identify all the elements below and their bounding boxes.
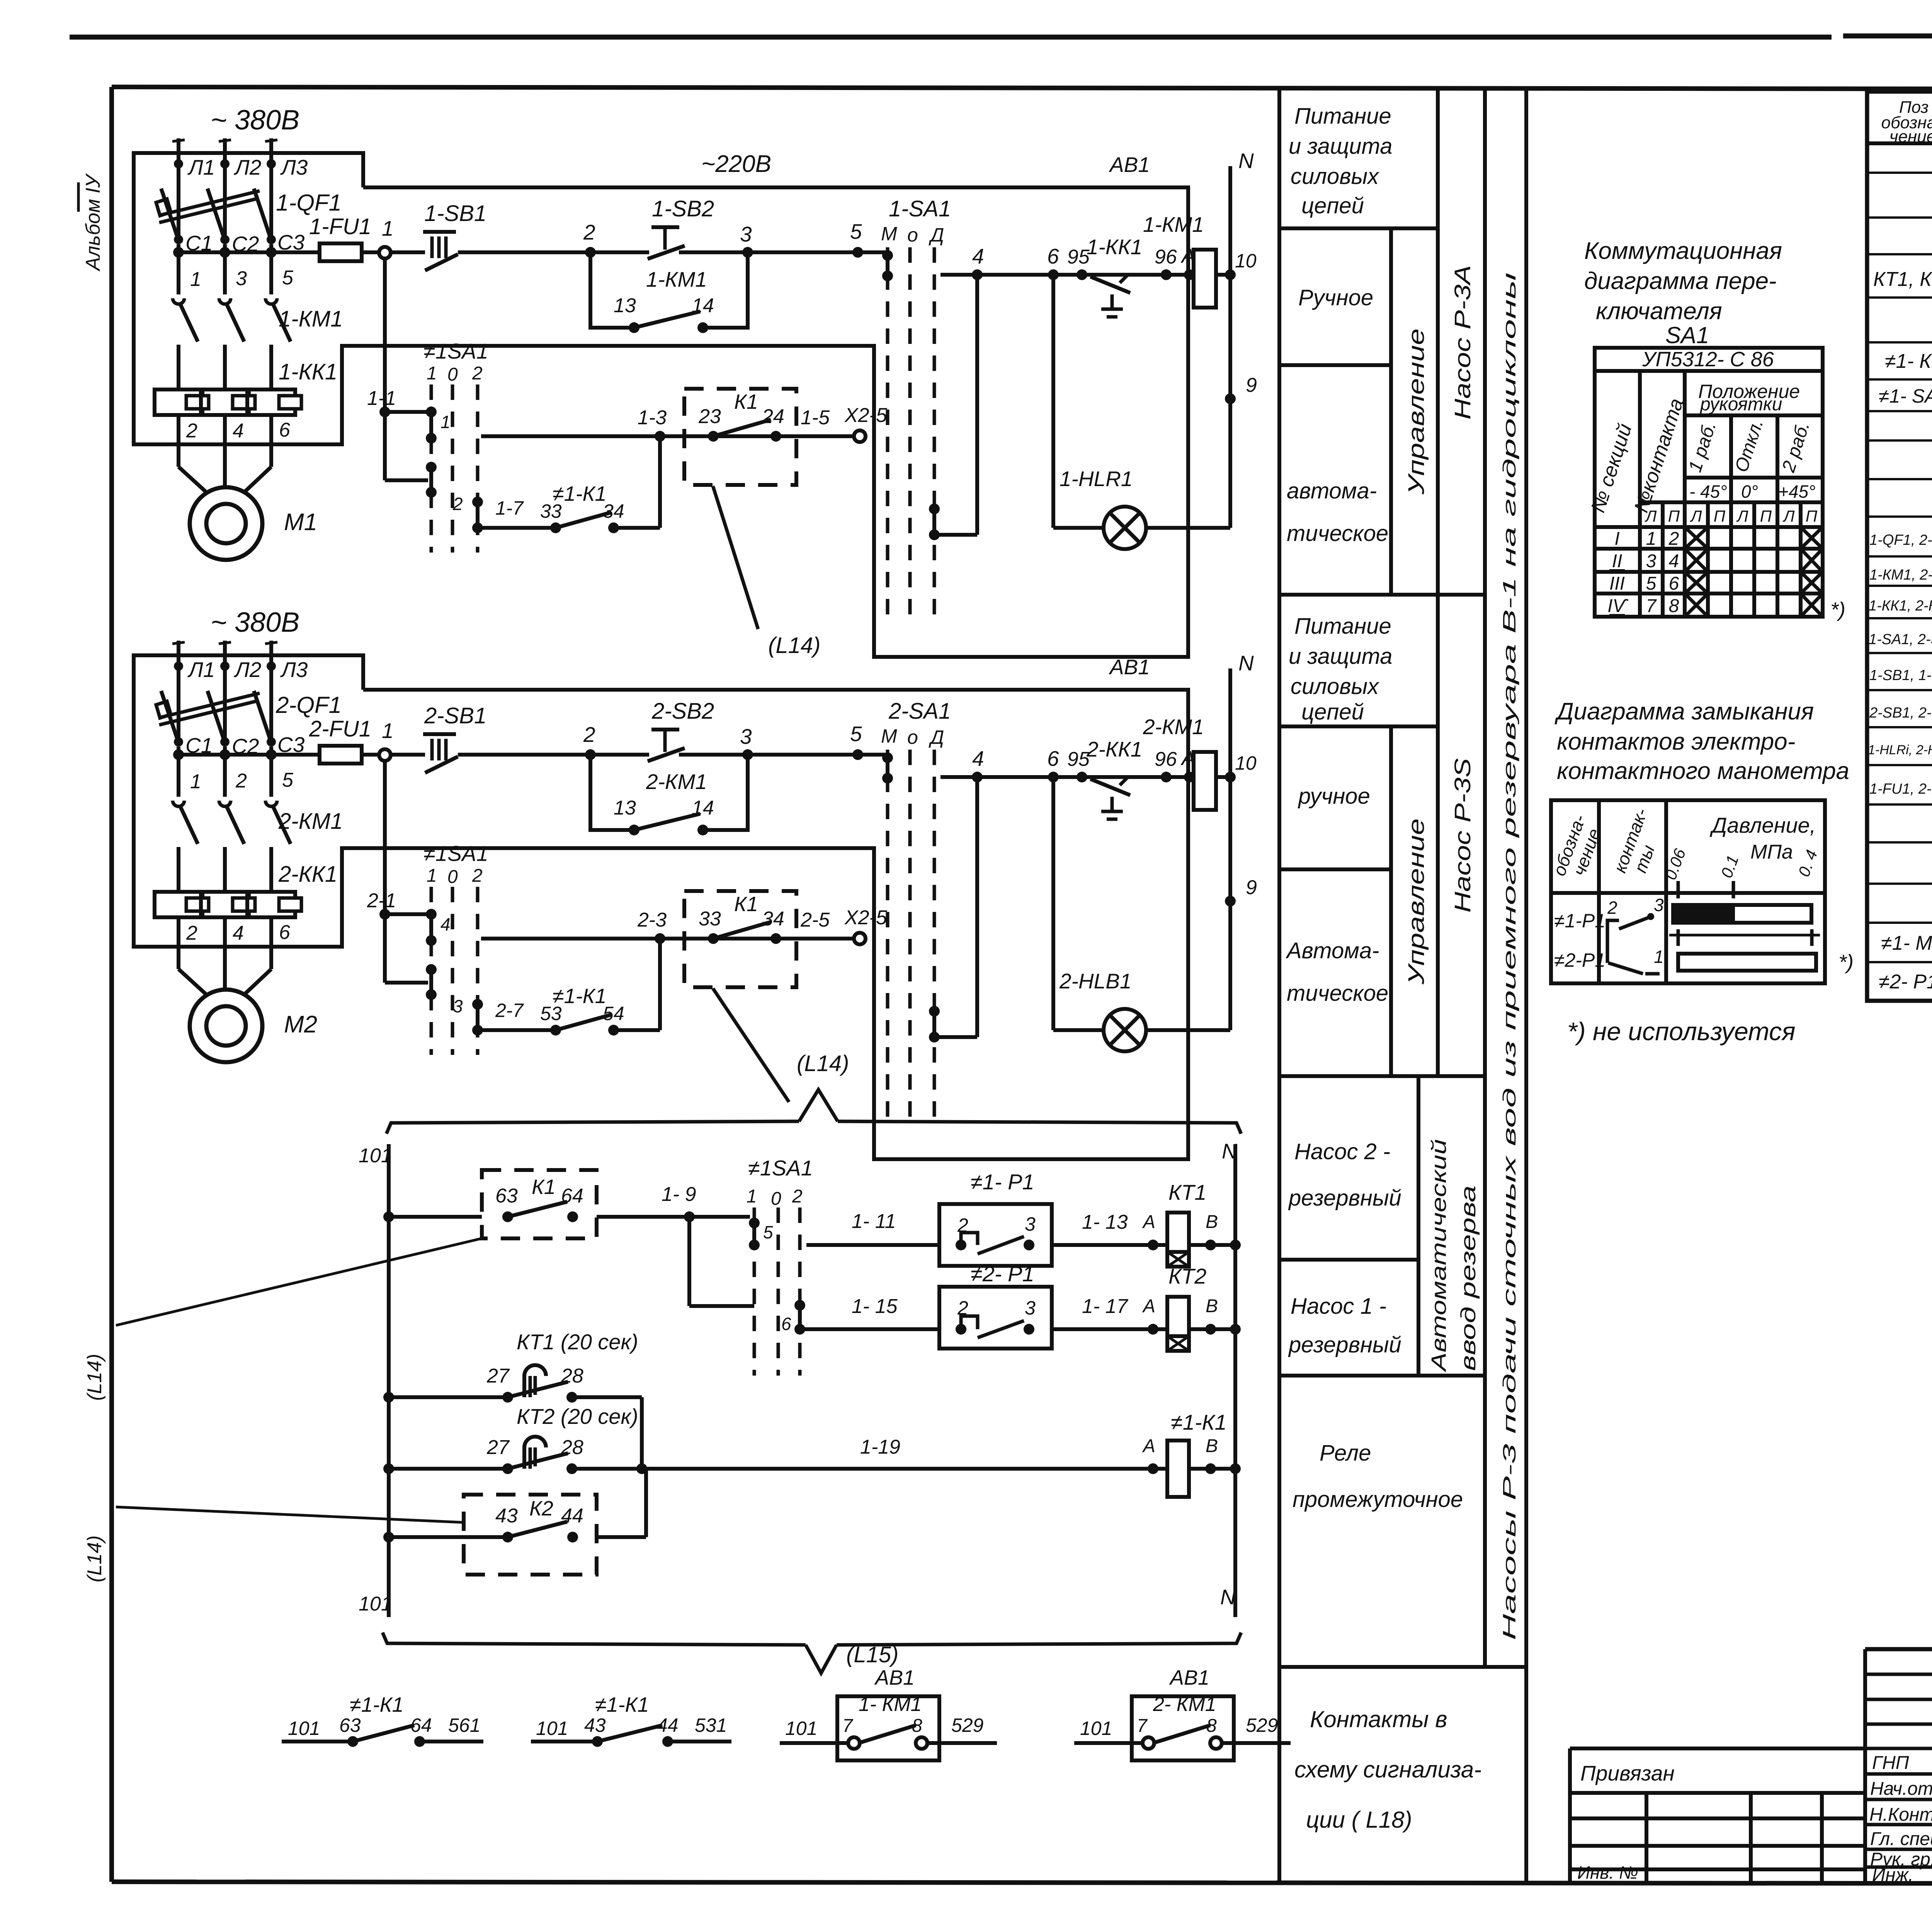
- svg-text:1-SA1: 1-SA1: [889, 196, 951, 221]
- svg-text:8: 8: [912, 1716, 922, 1736]
- time relay coil KT1: [1167, 1180, 1218, 1267]
- svg-text:1-КМ1: 1-КМ1: [279, 306, 343, 332]
- svg-text:33: 33: [540, 500, 562, 522]
- svg-text:1: 1: [1654, 947, 1664, 967]
- SA1 table section rows: [1607, 529, 1679, 616]
- contactor main contacts 1-KM1: [173, 244, 343, 444]
- svg-text:1- 15: 1- 15: [852, 1295, 898, 1318]
- svg-text:6: 6: [279, 921, 290, 944]
- label pump2 reserve: [1288, 1139, 1401, 1211]
- signal contact 2-KM1 7-8 in AB1: [1074, 1666, 1291, 1760]
- KK1 heaters circuit 1: [155, 359, 337, 415]
- svg-text:~ 380В: ~ 380В: [211, 105, 299, 136]
- svg-text:рукоятки: рукоятки: [1699, 394, 1782, 415]
- svg-text:1-КМ1: 1-КМ1: [646, 267, 707, 291]
- indicator lamp HLB1: [1053, 777, 1230, 1051]
- start button 2-SB2: [648, 699, 714, 761]
- svg-text:64: 64: [410, 1714, 432, 1736]
- svg-text:2-КМ1: 2-КМ1: [1143, 715, 1204, 739]
- contactor coil 2-KM1: [1143, 715, 1216, 810]
- phase terminal labels circuit 1: [187, 155, 308, 179]
- svg-text:Инж.: Инж.: [1872, 1865, 1913, 1885]
- svg-text:Автоматический: Автоматический: [1427, 1139, 1451, 1372]
- svg-text:1- 17: 1- 17: [1082, 1295, 1129, 1318]
- breaker label 2-QF1: [276, 692, 342, 718]
- svg-text:1: 1: [427, 363, 437, 384]
- svg-text:Гл. спец.: Гл. спец.: [1870, 1829, 1932, 1849]
- svg-text:5: 5: [282, 769, 294, 791]
- svg-text:3: 3: [453, 996, 463, 1016]
- svg-text:101: 101: [536, 1718, 568, 1739]
- svg-text:Л3: Л3: [280, 155, 308, 179]
- svg-text:ручное: ручное: [1298, 784, 1370, 809]
- svg-text:А: А: [1142, 1212, 1155, 1232]
- pressure contact box 2-P1: [939, 1262, 1052, 1349]
- svg-text:МПа: МПа: [1750, 841, 1793, 863]
- svg-text:1- 11: 1- 11: [852, 1210, 896, 1233]
- svg-text:1-SB1, 1-SB2: 1-SB1, 1-SB2: [1869, 667, 1932, 684]
- svg-text:АВ1: АВ1: [1109, 655, 1150, 679]
- svg-text:КТ2: КТ2: [1168, 1264, 1206, 1288]
- svg-text:≠1SA1: ≠1SA1: [423, 841, 488, 866]
- svg-text:Л3: Л3: [280, 658, 308, 682]
- svg-text:промежуточное: промежуточное: [1293, 1487, 1463, 1512]
- svg-text:ключателя: ключателя: [1596, 298, 1722, 325]
- breaker label 1-QF1: [276, 190, 342, 216]
- control line node4 to KM coil circuit 1: [940, 244, 1195, 280]
- svg-text:2-КМ1: 2-КМ1: [278, 809, 343, 834]
- time contact KT2 27-28: [383, 1404, 646, 1474]
- row SA1 switch: [1879, 381, 1932, 412]
- row QF breakers: [1869, 523, 1932, 549]
- svg-text:≠1-К1: ≠1-К1: [595, 1693, 649, 1716]
- svg-text:Д: Д: [929, 726, 944, 748]
- component table row lines: [1867, 173, 1932, 962]
- control line node4 to KM coil circuit 2: [940, 747, 1195, 782]
- label pump1 reserve: [1288, 1294, 1401, 1357]
- svg-text:К1: К1: [532, 1175, 556, 1199]
- svg-text:2-SA1: 2-SA1: [888, 699, 951, 724]
- svg-text:и защита: и защита: [1289, 134, 1392, 159]
- svg-text:3: 3: [1646, 551, 1656, 571]
- svg-text:1-HLRi, 2-HLR1: 1-HLRi, 2-HLR1: [1868, 743, 1932, 757]
- svg-text:Л2: Л2: [234, 155, 261, 179]
- selector switch 2-SA1 contacts M O D: [881, 699, 951, 1124]
- svg-text:(L14): (L14): [797, 1051, 849, 1076]
- svg-text:1: 1: [440, 412, 451, 432]
- label pump P-3A rotated: [1450, 265, 1475, 420]
- svg-text:4: 4: [440, 914, 451, 934]
- control tap bus circuit 2: [173, 749, 320, 760]
- svg-text:3: 3: [740, 724, 752, 748]
- svg-text:ГНП: ГНП: [1872, 1753, 1909, 1773]
- svg-text:Автома-: Автома-: [1286, 938, 1379, 963]
- svg-text:2-SB2: 2-SB2: [651, 699, 714, 724]
- svg-text:2-КМ1: 2-КМ1: [646, 770, 707, 794]
- svg-text:2-SB1: 2-SB1: [424, 703, 486, 728]
- top bracket line L14 section: [386, 1090, 1241, 1134]
- wire SB1 to node 2 circuit 1: [458, 220, 649, 258]
- svg-text:3: 3: [740, 222, 752, 246]
- svg-text:529: 529: [1246, 1714, 1278, 1736]
- cabinet AB1 outline circuit 1: [134, 153, 1188, 657]
- L14 bracket label: [797, 1051, 849, 1076]
- wire coil to N circuit 2: [1216, 752, 1257, 782]
- label manual 1: [1298, 285, 1373, 310]
- start button 1-SB2: [648, 196, 714, 259]
- AB1 label circuit 1: [1109, 153, 1150, 177]
- svg-text:Контакты в: Контакты в: [1310, 1706, 1447, 1732]
- svg-text:X2-5: X2-5: [844, 906, 888, 929]
- L15 bracket label: [846, 1642, 898, 1667]
- svg-text:силовых: силовых: [1291, 674, 1379, 699]
- svg-text:схему сигнализа-: схему сигнализа-: [1294, 1757, 1481, 1782]
- svg-text:5: 5: [763, 1222, 773, 1242]
- svg-text:101: 101: [1080, 1718, 1112, 1739]
- svg-text:8: 8: [1669, 596, 1679, 616]
- SA1 diagram table grid: [1595, 348, 1823, 617]
- svg-text:- 45°: - 45°: [1689, 481, 1727, 502]
- svg-text:7: 7: [1646, 596, 1657, 616]
- svg-text:АВ1: АВ1: [874, 1666, 915, 1689]
- svg-text:2: 2: [472, 866, 483, 886]
- wire node1 down to selector 2: [367, 760, 428, 983]
- svg-text:2: 2: [583, 220, 595, 244]
- svg-text:6: 6: [1047, 244, 1059, 268]
- svg-text:ции ( L18): ции ( L18): [1306, 1807, 1412, 1833]
- svg-text:1-SB1: 1-SB1: [424, 201, 486, 226]
- auto line with relay contact K1 33-34 circuit 2: [481, 909, 854, 944]
- supply label ~380V circuit 2: [211, 607, 299, 638]
- svg-text:1: 1: [190, 268, 201, 291]
- SA1 diagram title: [1584, 238, 1782, 348]
- svg-text:Нач.отд.: Нач.отд.: [1870, 1779, 1932, 1799]
- svg-text:2-FU1: 2-FU1: [309, 716, 371, 742]
- svg-text:28: 28: [561, 1365, 583, 1387]
- manometer table headers: [1549, 806, 1821, 882]
- time contact KT1 27-28: [383, 1330, 642, 1403]
- svg-text:27: 27: [486, 1436, 510, 1459]
- svg-text:≠1- М: ≠1- М: [1881, 932, 1932, 954]
- L14 reference pointer circuit 2: [713, 988, 789, 1102]
- svg-text:ІІ: ІІ: [1612, 551, 1622, 571]
- svg-text:Ручное: Ручное: [1298, 285, 1373, 310]
- svg-text:2: 2: [186, 922, 197, 944]
- row KT1 KT2: [1873, 265, 1932, 296]
- auto line with relay contact K1 23-24 circuit 1: [481, 406, 854, 442]
- neutral N relay section: [1220, 1139, 1237, 1617]
- row FU fuses: [1869, 772, 1932, 798]
- SA1 table L P row: [1645, 507, 1818, 525]
- svg-text:В: В: [1206, 1212, 1218, 1232]
- svg-text:1-FU1, 2-FU1: 1-FU1, 2-FU1: [1869, 781, 1932, 797]
- svg-text:АВ1: АВ1: [1109, 153, 1150, 177]
- seal-in contact 13-14 2-KM1: [590, 755, 748, 835]
- svg-text:П: П: [1760, 507, 1772, 525]
- row manometer: [1881, 930, 1932, 955]
- svg-text:27: 27: [486, 1365, 510, 1387]
- attachment labels: [1577, 1761, 1675, 1883]
- svg-text:1-КК1, 2-КК1: 1-КК1, 2-КК1: [1869, 598, 1932, 614]
- control voltage label ~220V: [701, 151, 771, 177]
- svg-text:Насос Р-3S: Насос Р-3S: [1450, 758, 1475, 913]
- function column grid: [1279, 90, 1526, 1881]
- selector 2 lower block 1SA1: [423, 841, 488, 1055]
- svg-text:М: М: [881, 725, 897, 747]
- svg-text:53: 53: [540, 1003, 562, 1024]
- svg-text:3: 3: [1654, 895, 1664, 915]
- label power and protection 1: [1289, 104, 1392, 218]
- svg-text:4: 4: [233, 420, 244, 442]
- svg-text:диаграмма пере-: диаграмма пере-: [1584, 268, 1777, 294]
- svg-text:64: 64: [561, 1185, 583, 1207]
- junction KT1-KT2 rows: [636, 1397, 647, 1474]
- svg-text:М2: М2: [284, 1011, 317, 1038]
- svg-text:529: 529: [951, 1714, 983, 1736]
- svg-text:Л1: Л1: [187, 155, 215, 179]
- svg-text:7: 7: [842, 1716, 854, 1736]
- svg-text:1- 13: 1- 13: [1082, 1211, 1128, 1233]
- svg-text:тическое: тическое: [1287, 521, 1388, 546]
- svg-text:34: 34: [603, 500, 624, 522]
- manometer contact symbol: [1607, 895, 1664, 974]
- svg-text:2: 2: [583, 723, 595, 747]
- svg-text:2-HLB1: 2-HLB1: [1059, 969, 1131, 993]
- wire KT1 to N: [1189, 1240, 1241, 1250]
- thermal contact 1-KK1: [1087, 235, 1142, 317]
- SA1 table footnote mark: [1830, 598, 1845, 621]
- time relay coil KT2: [1167, 1264, 1218, 1351]
- label automatic 2: [1286, 938, 1388, 1006]
- svg-text:ІѴ: ІѴ: [1607, 596, 1629, 616]
- svg-text:N: N: [1222, 1139, 1237, 1163]
- L14 pointer slants: [116, 1238, 482, 1522]
- svg-text:Л: Л: [1782, 507, 1795, 525]
- svg-text:и защита: и защита: [1289, 644, 1392, 669]
- svg-text:10: 10: [1235, 752, 1257, 774]
- svg-text:1- 9: 1- 9: [662, 1183, 696, 1206]
- svg-text:резервный: резервный: [1288, 1185, 1401, 1211]
- svg-text:1- КМ1: 1- КМ1: [859, 1693, 922, 1716]
- svg-text:о: о: [907, 726, 918, 748]
- svg-text:І: І: [1614, 529, 1619, 549]
- svg-text:2-КК1: 2-КК1: [278, 862, 337, 887]
- svg-text:1-QF1: 1-QF1: [276, 190, 342, 216]
- svg-text:≠1SA1: ≠1SA1: [423, 339, 488, 363]
- wire SB1 to node 2 circuit 2: [458, 723, 649, 760]
- relay K1 dashed box circuit 1: [684, 389, 830, 485]
- svg-text:4: 4: [233, 922, 244, 944]
- svg-text:*): *): [1830, 598, 1845, 621]
- terminal X2-5 circuit 1: [844, 404, 888, 442]
- svg-text:Л: Л: [1736, 507, 1748, 525]
- svg-text:2: 2: [472, 363, 483, 384]
- svg-text:А: А: [1142, 1296, 1155, 1316]
- svg-text:43: 43: [495, 1505, 518, 1527]
- svg-text:4: 4: [1669, 551, 1679, 571]
- svg-text:1: 1: [190, 770, 201, 793]
- svg-text:6: 6: [279, 419, 290, 441]
- svg-text:X2-5: X2-5: [844, 404, 888, 427]
- svg-text:2-КК1: 2-КК1: [1086, 737, 1142, 761]
- svg-text:≠2- Р1: ≠2- Р1: [1879, 971, 1932, 993]
- svg-text:(L14): (L14): [768, 633, 820, 658]
- svg-text:~220В: ~220В: [701, 151, 771, 177]
- svg-text:1-SB2: 1-SB2: [652, 196, 714, 221]
- contactor coil 1-KM1: [1143, 213, 1216, 308]
- svg-text:24: 24: [762, 405, 784, 428]
- label contacts to signalling: [1294, 1706, 1481, 1833]
- svg-text:3: 3: [1025, 1213, 1036, 1235]
- svg-text:В: В: [1206, 1296, 1218, 1316]
- svg-text:1-КК1: 1-КК1: [1087, 235, 1142, 259]
- svg-text:П: П: [1806, 507, 1818, 525]
- svg-text:≠1-К1: ≠1-К1: [1171, 1410, 1227, 1434]
- svg-text:о: о: [907, 224, 918, 246]
- svg-text:2- КМ1: 2- КМ1: [1153, 1693, 1216, 1716]
- L14 rotated reference labels left: [83, 1354, 106, 1582]
- svg-text:≠1-К1: ≠1-К1: [350, 1693, 404, 1716]
- relay K1 dashed box circuit 2: [684, 891, 830, 987]
- bottom bracket line L15 section: [383, 1633, 1241, 1673]
- svg-text:≠1SA1: ≠1SA1: [748, 1156, 813, 1180]
- L14 reference pointer circuit 1: [713, 486, 820, 658]
- svg-text:Л1: Л1: [187, 658, 215, 682]
- svg-text:2-5: 2-5: [800, 909, 830, 931]
- motor М2: [179, 947, 317, 1062]
- svg-text:2: 2: [792, 1186, 803, 1207]
- svg-text:0: 0: [447, 364, 458, 385]
- neutral line N circuit 2: [1225, 651, 1257, 1030]
- svg-text:Насос 1 -: Насос 1 -: [1291, 1294, 1386, 1319]
- svg-text:Л2: Л2: [234, 658, 261, 682]
- wire K1 to 1-9 node: [597, 1183, 750, 1222]
- svg-text:9: 9: [1246, 876, 1257, 899]
- svg-text:2: 2: [235, 770, 247, 792]
- svg-text:14: 14: [692, 797, 714, 819]
- svg-text:К1: К1: [734, 390, 758, 413]
- svg-text:К1: К1: [734, 893, 758, 916]
- row KK relays: [1869, 588, 1932, 615]
- svg-text:УП5312- С 86: УП5312- С 86: [1642, 348, 1774, 371]
- AB1 label circuit 2: [1109, 655, 1150, 679]
- SA1 table header texts: [1587, 381, 1815, 515]
- wire node1 to stop button circuit 1: [390, 250, 425, 254]
- svg-text:автома-: автома-: [1287, 478, 1377, 503]
- svg-text:44: 44: [657, 1714, 679, 1736]
- svg-text:Д: Д: [929, 224, 944, 246]
- svg-text:101: 101: [288, 1718, 320, 1739]
- svg-text:Коммутационная: Коммутационная: [1584, 238, 1782, 264]
- contactor main contacts 2-KM1: [173, 747, 343, 947]
- svg-text:13: 13: [614, 797, 636, 819]
- control tap bus circuit 1: [173, 247, 320, 258]
- svg-text:≠1-Р1: ≠1-Р1: [1554, 910, 1605, 932]
- svg-text:3: 3: [236, 267, 247, 290]
- svg-text:Инв. №: Инв. №: [1577, 1862, 1638, 1883]
- svg-text:6: 6: [1047, 747, 1059, 770]
- svg-text:2-3: 2-3: [637, 909, 667, 931]
- svg-text:2-QF1: 2-QF1: [276, 692, 342, 718]
- svg-text:23: 23: [698, 405, 721, 428]
- component table header: [1881, 98, 1932, 147]
- svg-text:М: М: [881, 223, 897, 245]
- svg-text:5: 5: [850, 219, 862, 243]
- row manometer 2: [1879, 968, 1932, 993]
- fuse 2-FU1: [309, 716, 371, 764]
- svg-text:≠1- Р1: ≠1- Р1: [971, 1170, 1034, 1194]
- svg-text:6: 6: [1669, 573, 1679, 594]
- svg-text:54: 54: [603, 1003, 624, 1024]
- row KM starters: [1869, 558, 1932, 584]
- svg-text:Альбом ІУ: Альбом ІУ: [82, 173, 104, 272]
- svg-text:КТ1: КТ1: [1168, 1180, 1206, 1204]
- svg-text:1-SA1, 2-SA1: 1-SA1, 2-SA1: [1869, 631, 1932, 648]
- stop button 1-SB1: [423, 201, 486, 270]
- svg-text:(L14): (L14): [83, 1354, 106, 1401]
- svg-text:Реле: Реле: [1320, 1440, 1371, 1466]
- supply label ~380V circuit 1: [211, 105, 299, 136]
- selector switch 1-SA1 contacts M O D: [881, 196, 951, 622]
- pressure contact box 1-P1: [939, 1170, 1052, 1266]
- attachment table: [1570, 1748, 1865, 1882]
- wire SB2 to node 3 and 5 circuit 1: [679, 219, 888, 258]
- manometer bar row 1: [1673, 905, 1811, 923]
- svg-text:А: А: [1142, 1436, 1155, 1456]
- svg-text:2: 2: [1668, 529, 1679, 549]
- svg-text:АВ1: АВ1: [1169, 1666, 1209, 1689]
- svg-text:КТ1, КТ2: КТ1, КТ2: [1873, 268, 1932, 291]
- svg-text:Питание: Питание: [1294, 104, 1391, 129]
- row K1 wire: [383, 1211, 482, 1222]
- svg-text:0: 0: [447, 867, 458, 887]
- wire selector D to node 4 circuit 2: [934, 777, 977, 1037]
- svg-text:8: 8: [1206, 1716, 1217, 1736]
- svg-text:КТ2 (20 сек): КТ2 (20 сек): [517, 1404, 638, 1429]
- selector 1 lower block 1SA1: [423, 339, 488, 553]
- wire coil to N circuit 1: [1216, 250, 1257, 280]
- svg-text:1-1: 1-1: [367, 387, 396, 410]
- svg-text:(L15): (L15): [846, 1642, 898, 1667]
- svg-text:(L14): (L14): [83, 1536, 106, 1582]
- intermediate relay coil 1-K1: [1142, 1410, 1241, 1497]
- wire 1-13 to KT1 coil: [1052, 1211, 1167, 1250]
- svg-text:1: 1: [382, 719, 394, 743]
- wire KT2 to N: [1189, 1324, 1241, 1335]
- node 1 circuit 1: [379, 216, 394, 259]
- svg-text:33: 33: [699, 908, 721, 930]
- svg-text:+45°: +45°: [1778, 481, 1815, 502]
- svg-text:1: 1: [382, 216, 394, 240]
- svg-text:96: 96: [1155, 748, 1177, 770]
- svg-text:тическое: тическое: [1287, 981, 1388, 1006]
- label power and protection 2: [1289, 614, 1392, 724]
- wire 1-11 to P1 contact: [806, 1210, 939, 1245]
- wire node1 to stop button circuit 2: [390, 753, 425, 757]
- svg-text:63: 63: [339, 1714, 361, 1736]
- svg-text:Привязан: Привязан: [1580, 1761, 1675, 1785]
- svg-text:1: 1: [1646, 529, 1656, 549]
- svg-text:0: 0: [771, 1189, 781, 1209]
- wire selector D to node 4 circuit 1: [934, 275, 977, 535]
- svg-text:1-КМ1, 2-КМ: 1-КМ1, 2-КМ: [1869, 567, 1932, 583]
- svg-text:6: 6: [781, 1314, 791, 1334]
- wire 1-9 jog down: [689, 1217, 754, 1306]
- svg-text:≠2- Р1: ≠2- Р1: [971, 1262, 1034, 1286]
- label automatic reserve input rotated: [1427, 1139, 1480, 1372]
- terminal X2-5 circuit 2: [844, 906, 888, 944]
- svg-text:9: 9: [1246, 374, 1257, 396]
